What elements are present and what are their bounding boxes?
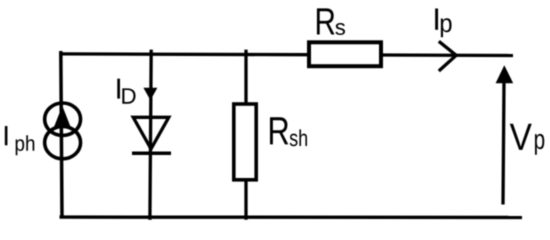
label Rs subscript s <box>335 23 345 35</box>
resistor Rsh body <box>234 104 256 180</box>
label Ip subscript p <box>441 18 452 37</box>
label Rsh subscript sh <box>290 129 307 146</box>
wire diode branch <box>150 50 151 220</box>
label Vp main V <box>510 124 532 150</box>
label Iph main I <box>5 126 8 145</box>
current source Iph arrow <box>54 106 71 128</box>
resistor Rs body <box>309 42 381 66</box>
voltage Vp arrowhead <box>496 65 514 83</box>
wire left branch <box>61 51 62 219</box>
label Vp subscript p <box>535 134 544 155</box>
label Rs main R <box>317 8 335 34</box>
diode D triangle <box>133 117 169 149</box>
label Iph subscript ph <box>16 135 35 155</box>
label Rsh main R <box>270 117 288 144</box>
current Ip arrowhead chevron <box>439 41 456 71</box>
wire top left segment <box>60 52 308 56</box>
current source Iph circle bottom <box>45 126 81 158</box>
label ID subscript D <box>122 88 135 103</box>
diode D current arrow ID <box>143 88 157 100</box>
voltage Vp arrow shaft <box>503 82 504 205</box>
wire shunt branch <box>244 50 247 220</box>
wire top right segment <box>383 53 513 57</box>
label Ip main I <box>435 8 438 29</box>
wire bottom <box>60 215 523 219</box>
diode D cathode bar <box>132 151 171 155</box>
current source Iph circle top <box>45 103 81 135</box>
label ID main I <box>117 79 120 99</box>
